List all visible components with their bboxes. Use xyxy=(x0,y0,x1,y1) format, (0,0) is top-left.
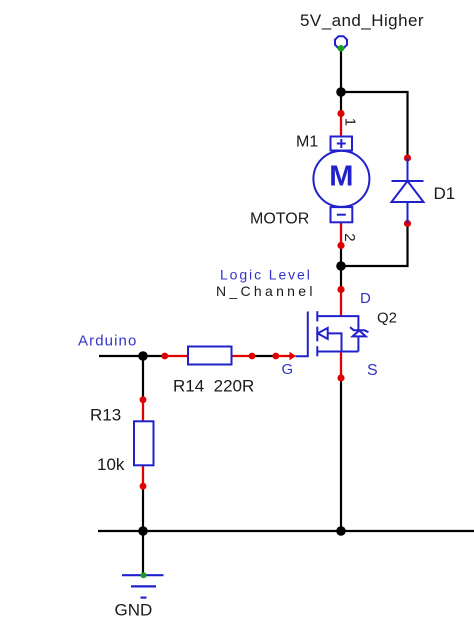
svg-text:D1: D1 xyxy=(434,184,456,203)
svg-text:R13: R13 xyxy=(90,406,121,425)
svg-text:5V_and_Higher: 5V_and_Higher xyxy=(300,11,424,30)
svg-text:GND: GND xyxy=(115,601,153,620)
svg-text:10k: 10k xyxy=(97,455,125,474)
svg-text:N_Channel: N_Channel xyxy=(216,283,316,299)
svg-text:MOTOR: MOTOR xyxy=(250,211,309,228)
svg-text:G: G xyxy=(282,361,294,378)
svg-text:1: 1 xyxy=(342,118,359,126)
svg-text:D: D xyxy=(360,290,371,307)
svg-text:S: S xyxy=(367,362,378,379)
svg-text:Logic Level: Logic Level xyxy=(220,267,312,283)
svg-text:M: M xyxy=(329,161,353,193)
svg-text:2: 2 xyxy=(341,233,358,241)
svg-text:Q2: Q2 xyxy=(377,310,397,327)
svg-text:M1: M1 xyxy=(296,134,318,151)
svg-text:R14 220R: R14 220R xyxy=(173,377,254,396)
svg-text:Arduino: Arduino xyxy=(78,333,137,350)
